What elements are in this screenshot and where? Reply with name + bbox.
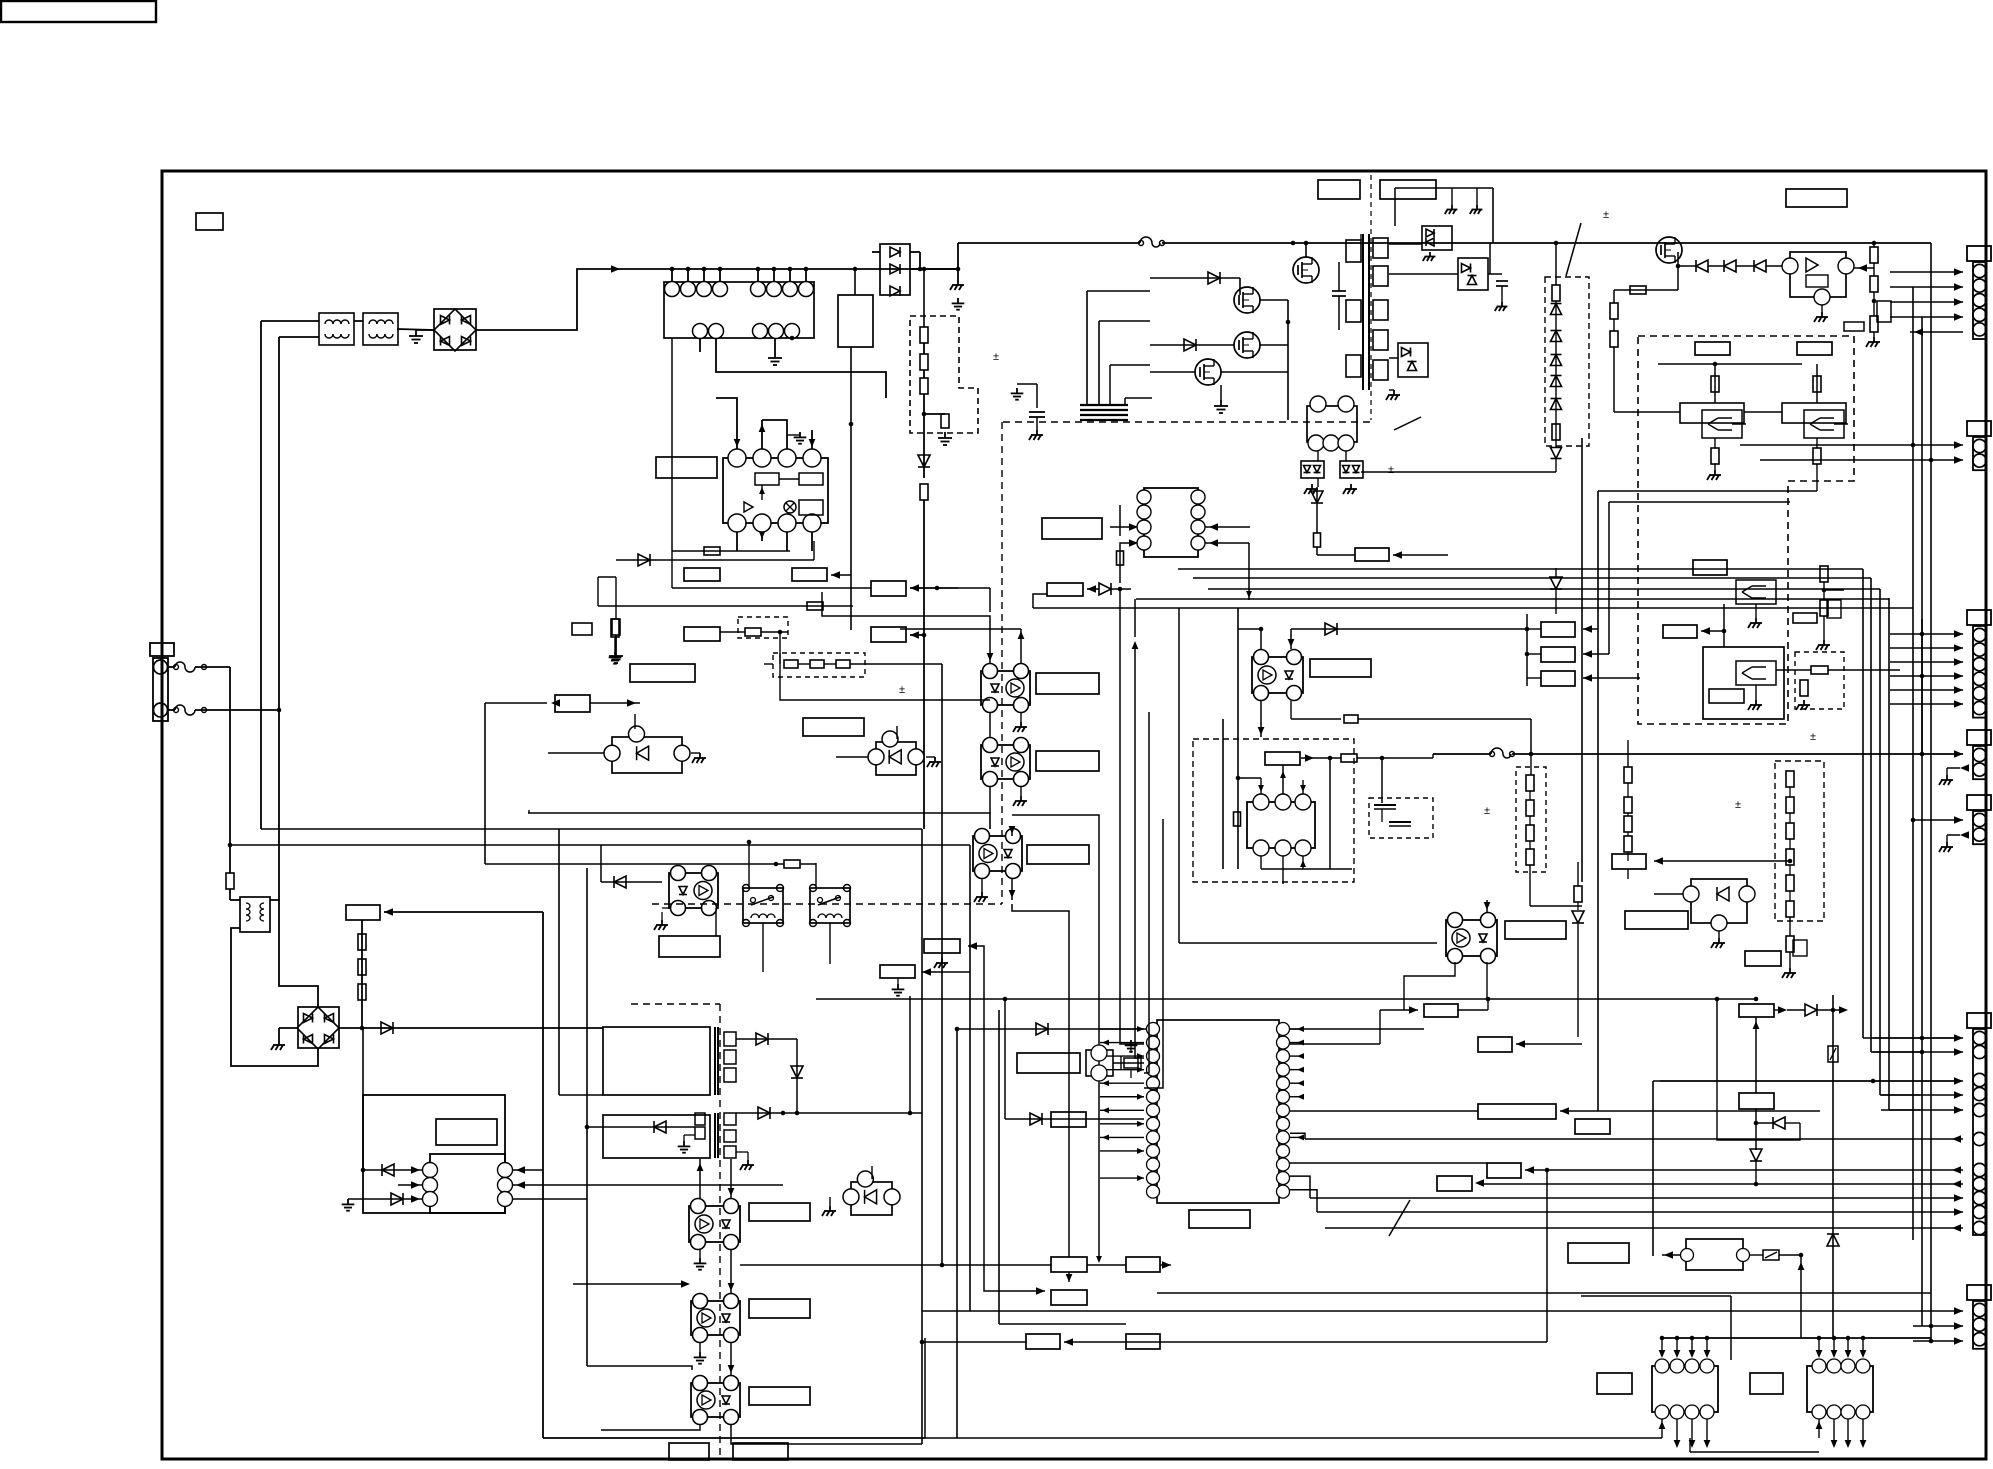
svg-text:±: ±	[1484, 805, 1490, 817]
svg-text:±: ±	[899, 684, 905, 696]
svg-text:±: ±	[993, 351, 999, 363]
svg-text:±: ±	[1603, 209, 1609, 221]
svg-text:±: ±	[1810, 731, 1816, 743]
svg-text:±: ±	[1735, 799, 1741, 811]
svg-text:±: ±	[1388, 464, 1394, 476]
